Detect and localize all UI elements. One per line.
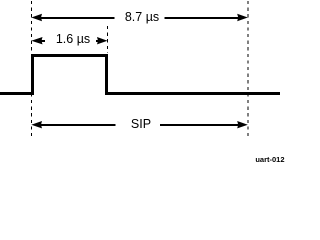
svg-text:1.6 µs: 1.6 µs [56,32,90,46]
dimension SIP : left arrowhead [31,121,42,128]
dashed vertical reference line right (frame end) [247,1,249,139]
dimension SIP : left line [41,124,116,126]
dimension 8.7 us : right arrowhead [237,14,248,21]
svg-text:8.7 µs: 8.7 µs [125,10,159,24]
dimension 8.7 us : right line [165,17,239,19]
dashed vertical reference line falling edge [107,26,109,53]
dimension 1.6 us : left arrowhead [31,37,42,44]
svg-text:uart-012: uart-012 [255,155,284,163]
dimension SIP : right line [160,124,239,126]
dimension 1.6 us : right arrowhead [97,37,108,44]
dimension 8.7 us : left arrowhead [31,14,42,21]
pulse waveform [0,56,280,94]
dashed vertical reference line left (rising edge) [31,1,33,139]
dimension 8.7 us : left line [41,17,115,19]
dimension 1.6 us : right line [96,40,99,42]
dimension 1.6 us : left line [42,40,46,42]
svg-text:SIP: SIP [131,117,151,131]
dimension SIP : right arrowhead [237,121,248,128]
